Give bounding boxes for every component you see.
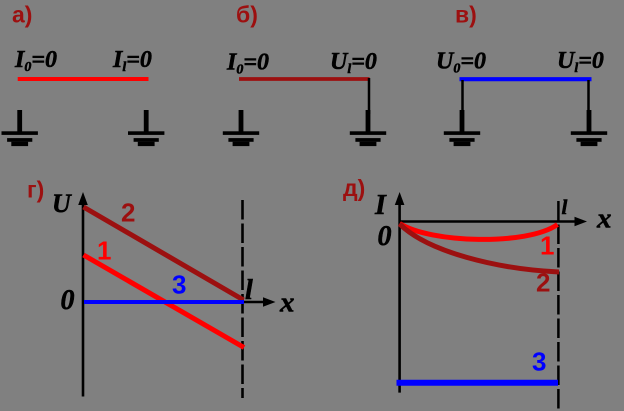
svg-text:а): а) <box>12 2 32 28</box>
svg-text:I0=0: I0=0 <box>226 50 269 78</box>
svg-text:0: 0 <box>378 221 392 252</box>
svg-text:l: l <box>245 275 253 306</box>
svg-text:3: 3 <box>532 347 546 377</box>
svg-text:2: 2 <box>121 198 135 228</box>
svg-text:б): б) <box>236 2 258 28</box>
svg-text:Ul=0: Ul=0 <box>557 48 604 76</box>
svg-text:l: l <box>562 195 568 219</box>
svg-text:Il=0: Il=0 <box>112 47 152 75</box>
svg-text:x: x <box>279 287 295 319</box>
svg-text:U: U <box>52 189 72 218</box>
svg-text:2: 2 <box>536 268 550 298</box>
svg-text:U0=0: U0=0 <box>436 49 486 77</box>
svg-text:1: 1 <box>540 231 554 261</box>
svg-text:I0=0: I0=0 <box>14 47 57 75</box>
svg-text:Ul=0: Ul=0 <box>330 49 377 77</box>
svg-text:0: 0 <box>61 285 75 316</box>
svg-text:1: 1 <box>97 236 111 266</box>
svg-text:I: I <box>374 190 387 221</box>
svg-text:x: x <box>596 203 612 235</box>
svg-text:г): г) <box>27 177 44 203</box>
svg-text:д): д) <box>343 175 365 201</box>
svg-text:в): в) <box>455 2 477 28</box>
svg-text:3: 3 <box>172 270 186 300</box>
